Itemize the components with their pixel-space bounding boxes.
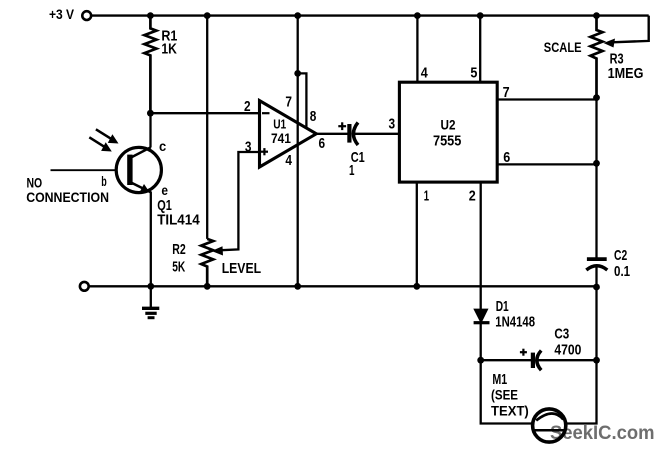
svg-text:3: 3 <box>389 117 396 133</box>
wire C3 to right column <box>537 359 596 361</box>
wire R2 feed from +3V <box>206 16 208 239</box>
node opamp supply top <box>294 12 301 19</box>
wire U2 pin6 <box>497 163 596 165</box>
ground symbol <box>142 286 159 317</box>
capacitor C2 <box>587 257 607 261</box>
node U1 pin4 rail <box>294 283 301 290</box>
svg-text:7: 7 <box>285 95 292 111</box>
node U2 pin5 top <box>477 12 484 19</box>
svg-text:c: c <box>159 138 166 154</box>
node R1 bottom / Q1 collector <box>147 110 154 117</box>
wire right column <box>595 98 597 260</box>
svg-text:1MEG: 1MEG <box>608 65 644 82</box>
svg-text:(SEE: (SEE <box>491 387 518 403</box>
svg-text:8: 8 <box>310 109 317 125</box>
wire Q1 collector up <box>149 113 151 147</box>
resistor R2 (pot) <box>201 239 213 286</box>
svg-text:5K: 5K <box>172 259 185 276</box>
svg-text:TIL414: TIL414 <box>157 212 200 229</box>
svg-text:D1: D1 <box>496 299 509 315</box>
node R1 top <box>147 12 154 19</box>
wire Q1 emitter down <box>150 192 152 287</box>
svg-text:+3 V: +3 V <box>49 6 75 22</box>
wire pin8 stub <box>298 73 307 128</box>
wire pin2 of U1 <box>150 112 259 114</box>
svg-text:2: 2 <box>469 188 476 205</box>
IC U2 7555 <box>399 82 497 182</box>
wire U2 pin4 <box>416 16 418 83</box>
svg-text:3: 3 <box>245 140 252 156</box>
wire C1 to U2 pin3 <box>354 133 400 135</box>
capacitor C1 <box>347 124 351 143</box>
svg-text:4: 4 <box>285 153 292 169</box>
node R2 feed top <box>204 12 211 19</box>
svg-text:0.1: 0.1 <box>614 263 630 280</box>
diode D1 1N4148 <box>474 309 488 323</box>
wire U1 supply (pin7 top / pin4 bottom) <box>297 16 299 287</box>
wire U2 pin5 <box>479 16 481 83</box>
svg-text:e: e <box>161 182 168 198</box>
svg-text:2: 2 <box>244 99 251 115</box>
ground rail terminal <box>80 282 89 291</box>
node U2 pin1 rail <box>413 283 420 290</box>
wire M1 loop right <box>565 360 597 423</box>
light arrow 1 <box>96 129 112 139</box>
node R2 bottom <box>204 283 211 290</box>
node U2 pin7 / R3 <box>593 94 600 101</box>
wire R3 wiper loop <box>612 16 649 43</box>
op-amp U1 741 <box>260 101 317 167</box>
wire U2 pin2 down <box>480 182 482 309</box>
wire top rail <box>91 14 648 16</box>
node U2 pin6 <box>593 160 600 167</box>
node pin8 branch <box>294 70 301 77</box>
svg-text:5: 5 <box>470 65 477 82</box>
svg-text:6: 6 <box>503 149 510 166</box>
svg-text:M1: M1 <box>492 371 507 388</box>
node R3 top <box>593 12 600 19</box>
resistor R1 <box>144 16 156 114</box>
svg-text:CONNECTION: CONNECTION <box>26 189 109 205</box>
wire U2 pin7 <box>497 98 596 100</box>
svg-text:U2: U2 <box>441 118 456 133</box>
wire C2 bottom to rail <box>595 266 597 360</box>
svg-text:b: b <box>101 174 107 189</box>
node U2 pin4 top <box>414 12 421 19</box>
svg-text:6: 6 <box>319 136 326 152</box>
svg-text:LEVEL: LEVEL <box>222 261 262 277</box>
svg-text:C3: C3 <box>554 326 569 343</box>
resistor R3 (pot SCALE) <box>591 16 603 98</box>
+3 V supply terminal <box>82 11 91 20</box>
wire ground rail <box>89 285 597 287</box>
wire M1 loop left <box>481 360 534 423</box>
svg-text:1K: 1K <box>161 40 177 57</box>
svg-text:741: 741 <box>271 130 291 146</box>
svg-text:R2: R2 <box>172 241 186 258</box>
node emitter/ground <box>147 283 154 290</box>
wire R2 wiper to pin3 <box>219 152 260 250</box>
wire U1 output <box>316 133 349 135</box>
svg-text:1N4148: 1N4148 <box>495 314 535 330</box>
svg-text:7555: 7555 <box>433 133 461 150</box>
svg-text:7: 7 <box>503 84 510 101</box>
node D1 bottom <box>477 357 484 364</box>
svg-text:C2: C2 <box>614 247 627 264</box>
node C3 right <box>593 357 600 364</box>
node C2 rail <box>593 284 600 291</box>
wire U2 pin1 to ground rail <box>416 182 418 286</box>
svg-text:SCALE: SCALE <box>544 39 582 55</box>
motor M1 <box>533 409 566 442</box>
phototransistor Q1 TIL414 <box>51 147 162 192</box>
svg-text:4700: 4700 <box>554 341 581 358</box>
capacitor C3 <box>481 359 533 361</box>
svg-text:TEXT): TEXT) <box>491 403 529 419</box>
svg-text:1: 1 <box>349 162 355 179</box>
light arrow 2 <box>89 137 105 147</box>
svg-text:1: 1 <box>424 188 429 205</box>
svg-text:4: 4 <box>421 65 429 82</box>
